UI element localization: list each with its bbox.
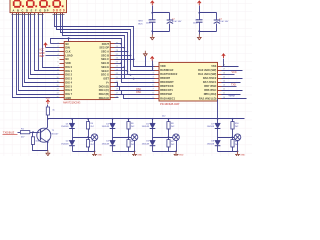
svg-text:ISET: ISET [39, 55, 45, 58]
svg-text:BUS: BUS [138, 23, 143, 25]
svg-text:RA2 /AN2 (LD): RA2 /AN2 (LD) [199, 96, 217, 100]
diode D7 [215, 123, 221, 128]
diode D4 [112, 138, 114, 141]
svg-text:RB5 (ADJ): RB5 (ADJ) [204, 92, 217, 96]
svg-text:GND: GND [179, 155, 184, 156]
svg-text:DIG 4: DIG 4 [65, 80, 72, 84]
wire lamp rail [48, 118, 245, 120]
lamp LP4 [234, 134, 241, 141]
svg-text:DIG 5: DIG 5 [65, 84, 72, 88]
svg-text:4MHz: 4MHz [229, 95, 236, 98]
wire collector up [47, 115, 49, 128]
wire cell3 top branches [152, 119, 154, 124]
wire cell1 bottom [72, 146, 74, 152]
svg-text:OSC: OSC [136, 91, 141, 94]
wire cap loop C1 [152, 6, 154, 20]
diode D2 [72, 138, 74, 141]
svg-text:6: 6 [58, 62, 59, 64]
svg-text:SEG A: SEG A [101, 50, 109, 54]
diode D8 [217, 138, 219, 141]
svg-text:V+: V+ [106, 80, 110, 84]
resistor R1 [20, 131, 29, 134]
svg-text:47uF 16V: 47uF 16V [172, 21, 182, 23]
svg-text:VDD: VDD [65, 61, 71, 65]
svg-text:DIG 7: DIG 7 [65, 92, 72, 96]
capacitor C4 [214, 19, 220, 21]
wire net to U1 pin4 [46, 55, 60, 57]
svg-text:DIG1 (C): DIG1 (C) [99, 88, 109, 92]
svg-text:SEG B: SEG B [101, 53, 109, 57]
capacitor C3 [196, 19, 202, 21]
svg-text:SEG E: SEG E [101, 65, 109, 69]
wire cell4 middle [217, 129, 219, 138]
svg-text:DIG 1: DIG 1 [65, 69, 72, 73]
7-segment display DS1 body [10, 0, 67, 13]
diode D3 [110, 123, 116, 128]
ground flag cell4 [235, 151, 240, 157]
ground flag U2 left [143, 51, 148, 57]
svg-text:RA6 /OSC2: RA6 /OSC2 [203, 76, 217, 80]
wire cell2 top branches [112, 119, 114, 124]
ground flag GND [197, 34, 202, 40]
wire cell4 top branches [217, 119, 219, 124]
svg-text:SEG D: SEG D [101, 61, 109, 65]
resistor R4 [127, 122, 130, 129]
svg-text:5: 5 [58, 58, 59, 60]
diode D5 [150, 123, 156, 128]
ground flag GND [150, 34, 155, 40]
wire emitter to ground [47, 143, 49, 151]
svg-text:GND: GND [240, 155, 245, 156]
power flag above R3 [46, 100, 49, 104]
svg-text:LOAD: LOAD [65, 53, 72, 57]
wire cell3 bottom [152, 146, 154, 152]
svg-text:GND: GND [97, 155, 102, 156]
capacitor C2 [167, 19, 173, 21]
svg-text:SEG G: SEG G [101, 73, 109, 77]
wire R2 to ground rail [33, 145, 48, 151]
svg-text:1N4148: 1N4148 [142, 126, 150, 128]
resistor R9 [168, 138, 170, 140]
svg-text:RA0 /AN0 (SW): RA0 /AN0 (SW) [198, 68, 216, 72]
power flag VCC [151, 1, 154, 5]
ground flag cell3 [174, 151, 179, 157]
wire cap loop C3 [199, 6, 201, 20]
svg-text:1N4148: 1N4148 [61, 143, 69, 145]
svg-text:1N4148: 1N4148 [102, 126, 110, 128]
wire net to U1 pin3 [46, 51, 60, 53]
wire TXD to R1 [18, 132, 21, 134]
svg-text:1N4148: 1N4148 [61, 126, 69, 128]
resistor R4 [167, 122, 170, 129]
lamp LP1 [91, 134, 98, 141]
wire group U1 right pins to channel verticals [115, 43, 122, 45]
svg-text:SEG DP: SEG DP [99, 46, 109, 50]
diode D6 [152, 138, 154, 141]
svg-text:VSS: VSS [211, 64, 216, 68]
svg-text:RB4/PGM: RB4/PGM [160, 92, 172, 96]
wire group U1 lower right to U2 [115, 83, 155, 87]
power flag U2 right [222, 54, 225, 58]
svg-text:RA4/T0CKI/C2: RA4/T0CKI/C2 [160, 72, 178, 76]
svg-text:VDD: VDD [160, 64, 166, 68]
svg-text:RA3/AN3/C1: RA3/AN3/C1 [160, 96, 175, 100]
svg-text:RB7 /PGD: RB7 /PGD [204, 84, 216, 88]
resistor R11 [232, 138, 234, 140]
microcontroller IC U2 body [159, 62, 218, 101]
svg-text:RB2/TX/CK: RB2/TX/CK [160, 84, 174, 88]
resistor R5 [88, 138, 90, 140]
svg-text:1N4148: 1N4148 [207, 143, 215, 145]
svg-text:1N4148: 1N4148 [142, 143, 150, 145]
wire bus display segments to U1 left pins [13, 15, 60, 98]
wire group U2 right pins [222, 66, 239, 68]
svg-text:DIG0 (D): DIG0 (D) [99, 84, 109, 88]
diode D1 [69, 123, 75, 128]
svg-text:TXD: TXD [231, 83, 236, 86]
wire cell1 middle [72, 129, 74, 138]
svg-text:47uF 16V: 47uF 16V [219, 21, 229, 23]
svg-text:BC547: BC547 [52, 133, 59, 135]
svg-text:DIG2 (B): DIG2 (B) [99, 92, 109, 96]
ground flag cell1 [92, 151, 97, 157]
wire U1 pin15 right [115, 97, 119, 99]
svg-text:RB3/CCP1: RB3/CCP1 [160, 88, 173, 92]
wire cell2 bottom [112, 146, 114, 152]
driver IC U1 pin stubs [60, 43, 65, 45]
svg-text:SEG F: SEG F [101, 69, 109, 73]
svg-text:100n: 100n [193, 22, 199, 24]
display pin stubs [12, 13, 14, 15]
svg-text:SEG: SEG [138, 21, 143, 23]
svg-text:GND: GND [65, 96, 71, 100]
svg-text:GND: GND [137, 155, 142, 156]
wire U2 to lamp rail vertical [217, 99, 219, 119]
wire net row5 long horizontal [51, 39, 155, 83]
svg-text:DIG3 (A): DIG3 (A) [99, 96, 109, 100]
capacitor C1 [149, 19, 155, 21]
wire cell4 bottom [217, 146, 219, 152]
lamp LP3 [173, 134, 180, 141]
svg-text:VCC: VCC [197, 0, 202, 1]
microcontroller IC U2 pin stubs [155, 66, 159, 68]
ground flag Q1 [46, 150, 51, 156]
svg-text:100n: 100n [146, 22, 152, 24]
svg-text:ISET: ISET [103, 77, 109, 81]
svg-text:A B C D E F G DP: A B C D E F G DP [13, 9, 49, 13]
svg-text:RA7 /OSC1: RA7 /OSC1 [203, 80, 217, 84]
svg-text:VCC: VCC [232, 71, 237, 74]
svg-text:1N4148: 1N4148 [102, 143, 110, 145]
wire net VCC to U1 [46, 47, 60, 49]
svg-text:VCC: VCC [150, 0, 155, 1]
resistor R7 [128, 138, 130, 140]
grid (decorative) [3, 0, 5, 156]
svg-text:1N4148: 1N4148 [207, 126, 215, 128]
transistor Q1 [37, 128, 51, 142]
svg-text:DIG 2: DIG 2 [65, 73, 72, 77]
svg-text:NC: NC [65, 57, 69, 61]
svg-text:RB0/INT: RB0/INT [160, 76, 170, 80]
svg-text:RB6 /PGC: RB6 /PGC [204, 88, 216, 92]
wire cell3 middle [152, 129, 154, 138]
svg-text:SEG C: SEG C [101, 57, 109, 61]
svg-text:RB1/RX/DT: RB1/RX/DT [160, 80, 174, 84]
wire R1 to base [30, 132, 40, 134]
resistor R4 [86, 122, 89, 129]
ground flag cell2 [132, 151, 137, 157]
wire bus display digits to channel [55, 15, 155, 67]
svg-text:DIG 3: DIG 3 [65, 77, 72, 81]
svg-text:DOUT: DOUT [102, 42, 110, 46]
svg-text:NC: NC [65, 42, 69, 46]
svg-text:VCC: VCC [46, 98, 51, 100]
7-segment digits 8.8.8.8 [14, 1, 21, 7]
svg-text:TXD/BUZ: TXD/BUZ [3, 130, 15, 134]
power flag VCC [198, 1, 201, 5]
svg-text:MAX7219CNG: MAX7219CNG [63, 101, 80, 105]
wire stub U1 pin1 [51, 43, 60, 45]
display pin numbers [12, 14, 15, 16]
wire cell2 middle [112, 129, 114, 138]
power flag U1 left [44, 43, 47, 47]
driver IC U1 body [64, 42, 110, 100]
svg-text:DIG 6: DIG 6 [65, 88, 72, 92]
lamp LP2 [131, 134, 138, 141]
power flag VCC U2 left [151, 57, 154, 61]
svg-text:PIC16F628-04/P: PIC16F628-04/P [160, 102, 180, 106]
svg-text:RA1 /AN1 (SW): RA1 /AN1 (SW) [198, 72, 216, 76]
wire cell1 top branches [72, 119, 74, 124]
wire stub U1 top [68, 39, 70, 42]
svg-text:DIG 0: DIG 0 [65, 65, 72, 69]
svg-text:RA5/MCLR: RA5/MCLR [160, 68, 173, 72]
resistor R2 [32, 133, 34, 137]
resistor R3 [46, 107, 49, 115]
svg-text:DIN: DIN [65, 46, 70, 50]
svg-text:CLK: CLK [65, 50, 70, 54]
resistor R4 [231, 122, 234, 129]
